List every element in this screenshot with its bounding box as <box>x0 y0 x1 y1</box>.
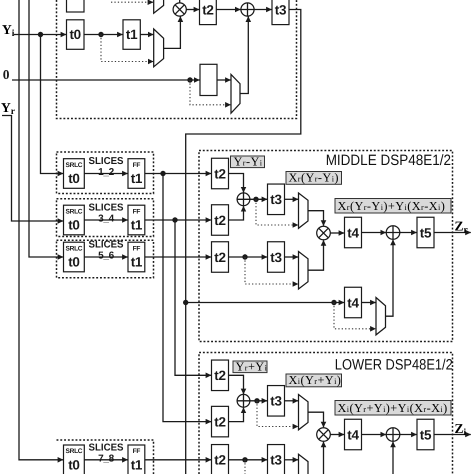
wire mux 1 to multiplier top <box>308 211 324 226</box>
adder (middle, pre-add) <box>237 193 250 206</box>
wire multiplier to t4 <box>330 434 344 436</box>
wire adder to t5 <box>400 232 417 234</box>
FF register t1 (SLICES 1_2) <box>128 159 145 189</box>
wire bus line from top to SLICES 7_8 <box>19 0 63 460</box>
mux 2 (middle) <box>299 252 309 290</box>
wire branch down to lower t2 <box>163 174 211 422</box>
mux 2 (lower, cut) <box>299 454 309 474</box>
dotted feedback into mux 3 <box>334 303 376 329</box>
wire t2 up to adder bottom <box>229 408 244 422</box>
value label Yr+Yi <box>233 359 268 373</box>
LOWER DSP48E1/2 dashed box (cut at bottom) <box>199 353 453 474</box>
register t0 (upper DSP) <box>67 20 85 50</box>
wire t2 to t3 (row 3) <box>229 459 268 461</box>
svg-text:5_6: 5_6 <box>98 251 115 262</box>
register t2 (middle, row 2) <box>212 205 229 236</box>
FF register t1 (SLICES 7_8) <box>128 445 145 474</box>
wire t3 to mux 1 <box>285 198 299 200</box>
wire register to mux C <box>217 79 231 81</box>
svg-text:t3: t3 <box>275 2 287 17</box>
node junction on 0 line <box>187 77 192 82</box>
wire t2 to adder <box>216 9 240 11</box>
dotted feedback into mux 1 <box>256 199 298 225</box>
dotted feedback going down (cut) <box>244 460 246 474</box>
wire SLICES 5_6 output to middle t2 <box>145 256 211 258</box>
adder (lower, output) <box>386 428 400 442</box>
svg-text:t0: t0 <box>68 255 79 270</box>
svg-text:FF: FF <box>133 162 141 169</box>
SLICES 7_8 dashed box <box>57 440 154 474</box>
FF register t1 (SLICES 5_6) <box>128 242 145 272</box>
multiplier (lower) <box>317 428 331 442</box>
dotted feedback into mux 2 <box>245 257 298 284</box>
svg-text:SLICES: SLICES <box>89 156 124 167</box>
mux B (upper DSP) <box>154 29 164 67</box>
wire t0 to t1 <box>84 34 123 36</box>
wire 0 input line <box>12 79 200 81</box>
svg-text:t5: t5 <box>420 225 432 240</box>
SRLC register t0 (SLICES 1_2) <box>64 159 85 189</box>
wire t0 to t1 (SLICES 3_4) <box>84 219 127 221</box>
svg-text:t0: t0 <box>68 218 79 233</box>
svg-text:t2: t2 <box>214 250 225 265</box>
register t3 (middle, row 3) <box>268 242 285 273</box>
node junction after t2 row 3 <box>242 254 247 259</box>
svg-text:SRLC: SRLC <box>66 208 83 215</box>
svg-text:SRLC: SRLC <box>66 162 83 169</box>
UPPER DSP48E1/2 dashed box (cut off at top) <box>57 0 297 119</box>
register t3 (lower, row 1) <box>268 386 285 417</box>
wire SLICES 1_2 output to middle t2 <box>145 173 211 175</box>
register t4 (lower) <box>345 419 362 450</box>
svg-text:FF: FF <box>133 208 141 215</box>
svg-text:t3: t3 <box>270 250 282 265</box>
wire t3 to mux 1 <box>285 400 299 402</box>
svg-text:Xi(Yr+Yi)+Yi(Xr-Xi): Xi(Yr+Yi)+Yi(Xr-Xi) <box>338 401 448 415</box>
register t4 (middle, row 1) <box>345 217 362 248</box>
wire t5 to output Zr <box>434 232 471 234</box>
node junction on Yi line <box>38 32 43 37</box>
wire Yr input down to SLICES 3_4 <box>2 116 63 222</box>
svg-text:7_8: 7_8 <box>98 454 115 465</box>
svg-text:SLICES: SLICES <box>89 240 124 251</box>
svg-text:Yr-Yi: Yr-Yi <box>234 154 263 168</box>
wire t2 up to adder bottom <box>229 206 244 220</box>
wire t3 to mux 2 <box>285 459 299 461</box>
wire t4 to adder <box>362 232 386 234</box>
wire mux 2 to multiplier bottom <box>308 240 324 270</box>
register t2 (upper DSP, cut) <box>200 0 217 25</box>
register t5 (lower) <box>417 419 434 450</box>
adder (lower, pre-add) <box>237 394 250 407</box>
wire Yi input to t0 <box>14 34 66 36</box>
svg-text:t1: t1 <box>131 458 143 473</box>
register t3 (upper DSP, cut) <box>272 0 289 25</box>
wire bus line from top to SLICES 5_6 <box>29 0 63 257</box>
svg-text:t2: t2 <box>202 2 213 17</box>
svg-text:t2: t2 <box>214 414 225 429</box>
mux 1 (middle) <box>299 193 309 228</box>
adder (middle, output) <box>386 226 400 240</box>
svg-text:t3: t3 <box>270 453 282 468</box>
dotted select wire into mux A <box>111 1 153 3</box>
register t2 (middle, row 1) <box>212 158 229 189</box>
value label Yr-Yi <box>231 154 265 168</box>
wire t4 to adder <box>362 434 386 436</box>
multiplier (middle) <box>317 226 331 240</box>
wire adder to t3 <box>250 400 267 402</box>
value label Xr(Yr-Yi)+Yi(Xr-Xi) <box>335 199 451 214</box>
svg-text:Xr(Yr-Yi)+Yi(Xr-Xi): Xr(Yr-Yi)+Yi(Xr-Xi) <box>338 199 446 213</box>
dotted feedback wire around t1 into mux B <box>101 35 153 62</box>
wire mux 1 to multiplier top <box>308 412 324 427</box>
svg-text:t2: t2 <box>214 166 225 181</box>
svg-text:t4: t4 <box>347 295 359 310</box>
node junction after t0 <box>98 32 103 37</box>
mux A (cut at top) <box>154 0 164 13</box>
svg-text:t4: t4 <box>347 225 359 240</box>
svg-text:t1: t1 <box>131 171 143 186</box>
value label Xi(Yr+Yi) <box>286 373 342 387</box>
svg-text:SRLC: SRLC <box>66 245 83 252</box>
svg-text:FF: FF <box>133 245 141 252</box>
svg-text:1_2: 1_2 <box>98 167 115 178</box>
svg-text:LOWER DSP48E1/2: LOWER DSP48E1/2 <box>335 357 453 374</box>
svg-text:MIDDLE DSP48E1/2: MIDDLE DSP48E1/2 <box>326 152 451 169</box>
svg-text:t2: t2 <box>214 368 225 383</box>
register t3 (lower, row 3, cut) <box>268 445 285 474</box>
SRLC register t0 (SLICES 3_4) <box>64 205 85 235</box>
svg-text:t3: t3 <box>270 394 282 409</box>
svg-text:SLICES: SLICES <box>89 203 124 214</box>
wire into multiplier top (cut) <box>179 0 181 3</box>
svg-text:t2: t2 <box>214 213 225 228</box>
wire from below into adder bottom (cut) <box>392 442 394 474</box>
wire mux B to multiplier bottom <box>164 16 181 48</box>
register t2 (lower, row 3, cut) <box>212 445 229 474</box>
wire multiplier to t4 <box>330 232 344 234</box>
node junction after pre-adder <box>254 398 259 403</box>
register t1 (upper DSP) <box>123 20 140 50</box>
register box (0 row) <box>200 64 217 95</box>
mux 3 (middle) <box>376 298 386 335</box>
svg-text:SLICES: SLICES <box>89 443 124 454</box>
node junction Xr-Xi bus to middle DSP <box>183 300 188 305</box>
svg-text:0: 0 <box>3 67 10 82</box>
svg-text:SRLC: SRLC <box>66 448 83 455</box>
wire t3 to mux 2 <box>285 256 299 258</box>
wire Yi branch down to SLICES 1_2 <box>41 35 64 174</box>
value label Xi(Yr+Yi)+Yi(Xr-Xi) <box>335 401 451 416</box>
svg-text:t3: t3 <box>270 192 282 207</box>
register t3 (middle, row 1) <box>268 184 285 215</box>
wire multiplier to t2 <box>186 9 199 11</box>
node junction after SLICES 3_4 <box>172 217 177 222</box>
value label Xr(Yr-Yi) <box>286 171 342 185</box>
wire t0 to t1 (SLICES 5_6) <box>84 256 127 258</box>
MIDDLE DSP48E1/2 dashed box <box>199 151 453 342</box>
svg-text:t5: t5 <box>420 427 432 442</box>
wire t0 to t1 (SLICES 1_2) <box>84 173 127 175</box>
wire adder to t3 <box>254 9 272 11</box>
register t2 (lower, row 1) <box>212 360 229 391</box>
mux C (upper DSP) <box>231 74 240 113</box>
wire t2 down to adder top <box>229 375 244 394</box>
dotted feedback into mux 1 <box>257 401 298 427</box>
register t4 (middle, row 2) <box>345 287 362 318</box>
wire mux C up to adder bottom <box>240 16 248 93</box>
svg-text:Yr+Yi: Yr+Yi <box>236 359 268 373</box>
wire t4 to mux 3 <box>362 302 376 304</box>
wire t0 to t1 (SLICES 7_8) <box>84 459 127 461</box>
svg-text:t0: t0 <box>68 171 79 186</box>
wire t2 to t3 (row 3) <box>229 256 268 258</box>
SLICES 1_2 dashed box <box>57 152 154 194</box>
svg-text:t1: t1 <box>131 255 143 270</box>
wire t1 to mux B <box>140 34 153 36</box>
wire t3 output routed down-left (Xr-Xi bus) <box>186 10 301 474</box>
wire SLICES 3_4 output to middle t2 <box>145 219 211 221</box>
svg-text:t4: t4 <box>347 427 359 442</box>
register box above t0 (cut) <box>67 0 85 12</box>
node junction after pre-adder <box>253 197 258 202</box>
svg-text:t0: t0 <box>68 458 79 473</box>
SLICES 3_4 dashed box <box>57 199 154 237</box>
wire SLICES 7_8 output to lower t2 <box>145 459 211 461</box>
wire t2 down to adder top <box>229 174 244 193</box>
wire Xr-Xi bus into t4 row 2 <box>186 302 345 304</box>
node junction before t4 row 2 <box>331 300 336 305</box>
svg-text:t1: t1 <box>126 27 138 42</box>
adder (upper DSP) <box>241 3 254 16</box>
dotted feedback wire into mux C <box>190 80 231 105</box>
svg-text:t0: t0 <box>69 27 80 42</box>
node junction after t2 row 3 <box>242 457 247 462</box>
register t2 (lower, row 2) <box>212 406 229 437</box>
register t2 (middle, row 3) <box>212 242 229 273</box>
wire adder to t3 <box>250 198 267 200</box>
wire branch down to lower t2 <box>175 220 211 375</box>
wire adder to t5 <box>400 434 417 436</box>
svg-text:t1: t1 <box>131 218 143 233</box>
mux 1 (lower) <box>299 395 309 430</box>
node junction after SLICES 1_2 <box>160 171 165 176</box>
multiplier (upper DSP) <box>173 3 186 16</box>
wire from below into multiplier bottom (cut) <box>323 442 325 474</box>
svg-text:t2: t2 <box>214 453 225 468</box>
SLICES 5_6 dashed box <box>57 240 154 278</box>
svg-text:FF: FF <box>133 448 141 455</box>
svg-text:3_4: 3_4 <box>98 214 115 225</box>
FF register t1 (SLICES 3_4) <box>128 205 145 235</box>
register t5 (middle) <box>417 217 434 248</box>
SRLC register t0 (SLICES 7_8) <box>64 445 85 474</box>
wire t5 to output Zi <box>434 434 471 436</box>
svg-text:Xr(Yr-Yi): Xr(Yr-Yi) <box>289 171 339 185</box>
wire mux 3 up to adder bottom <box>386 240 394 317</box>
SRLC register t0 (SLICES 5_6) <box>64 242 85 272</box>
